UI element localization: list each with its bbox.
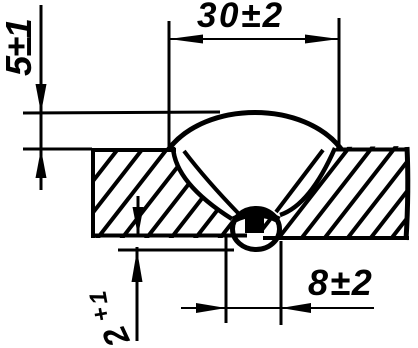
dimension 30±2 : dimension line with arrows [169, 35, 339, 44]
label 2+1 [84, 289, 136, 348]
dimension 8±2 : extension lines [226, 237, 281, 325]
left plate hatching [36, 130, 304, 254]
left plate outline [91, 148, 247, 238]
right fusion line [280, 148, 335, 215]
svg-text:8±2: 8±2 [308, 262, 374, 303]
svg-text:5±1: 5±1 [0, 19, 39, 76]
svg-text:30±2: 30±2 [197, 0, 285, 35]
root gap (black) [245, 214, 264, 233]
dimension 5±1 : vertical dimension line [36, 5, 47, 190]
svg-text:2: 2 [95, 320, 137, 348]
dimension 8±2 : dimension line with outside arrows [181, 303, 374, 313]
dimension 2+1 : dimension line segments and arrows [118, 196, 234, 341]
left fusion line [173, 147, 232, 219]
weld cap (dome) [168, 113, 342, 151]
right plate outline [263, 147, 409, 240]
svg-text:1: 1 [84, 289, 113, 307]
svg-text:+: + [87, 305, 116, 323]
left bevel line [184, 151, 239, 214]
right plate hatching [243, 130, 418, 254]
dimension 5±1 : extension lines [23, 112, 220, 149]
root bead ellipse [233, 209, 280, 250]
root bead top band [233, 214, 279, 220]
dimension 30±2 : extension lines [169, 18, 339, 149]
right bevel line [276, 150, 323, 212]
